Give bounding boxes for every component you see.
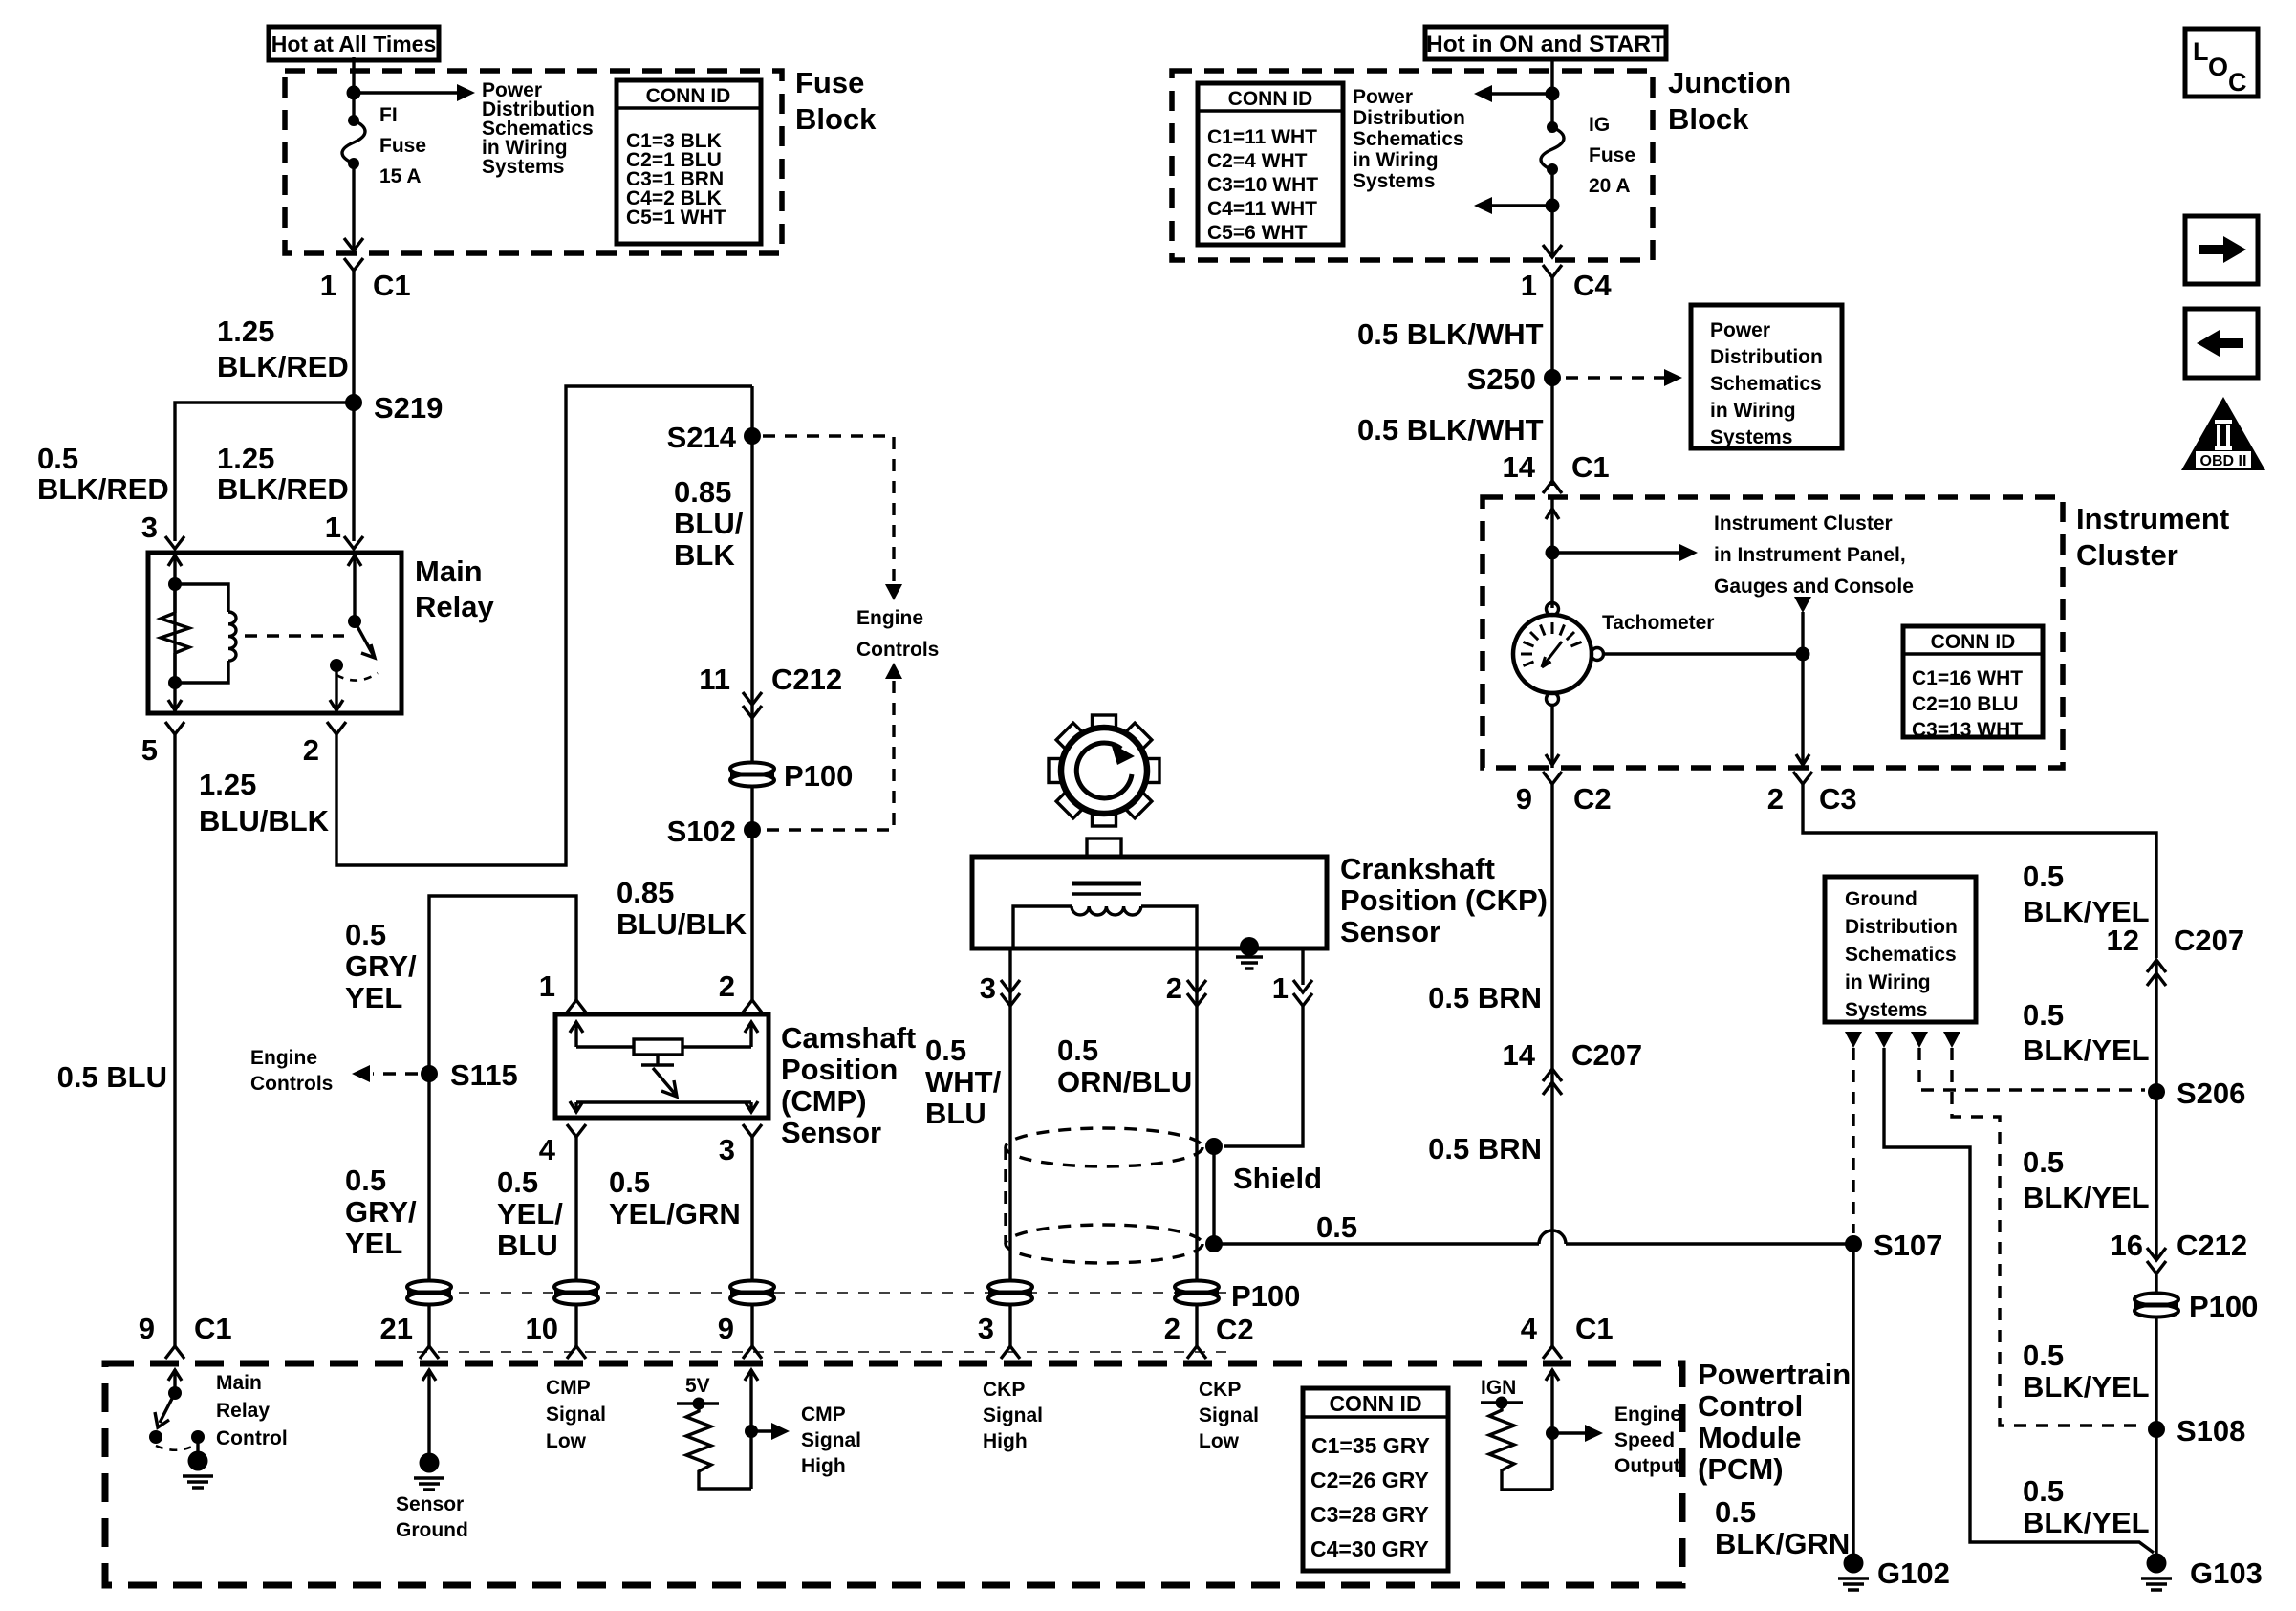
svg-text:C1: C1	[194, 1312, 232, 1345]
icon arrow right	[2185, 216, 2258, 284]
svg-text:C2: C2	[1573, 782, 1612, 816]
PCM connector face dashed line	[417, 1351, 1235, 1353]
svg-text:0.5 BLK/WHT: 0.5 BLK/WHT	[1357, 413, 1544, 446]
fuse block box	[285, 71, 782, 253]
arrow to power distribution (top)	[1474, 85, 1552, 102]
svg-text:Instrument Clusterin Instrumen: Instrument Clusterin Instrument Panel,Ga…	[1714, 512, 1914, 598]
svg-text:L: L	[2193, 37, 2209, 66]
svg-text:C1: C1	[373, 269, 411, 302]
wire CKP pin1 stub	[1301, 948, 1304, 985]
wire from hot feed	[352, 57, 355, 120]
icon arrow left	[2185, 309, 2258, 378]
ground G103	[2141, 1554, 2172, 1591]
svg-text:C: C	[2228, 68, 2247, 97]
dashed arrow S115 to engine controls	[352, 1065, 418, 1082]
wire into cluster	[1546, 497, 1559, 608]
icon LOC	[2185, 29, 2258, 97]
arrow to power distribution (bottom)	[1474, 197, 1552, 214]
svg-text:G102: G102	[1877, 1557, 1950, 1590]
connector 16 C212	[2147, 1248, 2166, 1274]
svg-text:0.5: 0.5	[1316, 1210, 1357, 1244]
connector 2 C3	[1793, 772, 1812, 784]
svg-text:C1=3 BLKC2=1 BLUC3=1 BRNC4=2 B: C1=3 BLKC2=1 BLUC3=1 BRNC4=2 BLKC5=1 WHT	[626, 130, 726, 229]
CKP sensor box	[972, 857, 1327, 948]
svg-text:1: 1	[320, 269, 336, 302]
svg-text:P100: P100	[2189, 1290, 2258, 1323]
fuse block conn id table	[617, 80, 761, 244]
CMP sensor box	[555, 1014, 769, 1118]
svg-text:3: 3	[141, 511, 158, 544]
svg-text:CONN ID: CONN ID	[1228, 88, 1313, 110]
svg-text:12: 12	[2107, 924, 2139, 957]
dashed arrow S250 to power dist box	[1566, 369, 1682, 386]
relay resistor	[161, 584, 189, 683]
wire tach to C3 branch	[1603, 652, 1803, 655]
pin 5	[165, 722, 184, 734]
CKP internal ground	[1236, 937, 1263, 969]
arrow from cluster note down	[1794, 597, 1811, 654]
svg-text:11: 11	[699, 663, 730, 696]
wire pin5 to PCM 9 C1	[173, 734, 176, 1346]
svg-text:3: 3	[719, 1133, 735, 1166]
grommet (2 wire)	[1175, 1281, 1219, 1305]
header Hot in ON and START	[1425, 27, 1666, 59]
dashed to S108	[1952, 1048, 2145, 1426]
connector 12 C207	[2147, 960, 2166, 986]
svg-text:5V: 5V	[685, 1375, 710, 1397]
node fuse out junction	[1546, 199, 1560, 213]
pin 3	[1001, 1346, 1020, 1359]
pin 2	[1187, 1346, 1206, 1359]
svg-text:CONN ID: CONN ID	[646, 85, 731, 107]
svg-text:1: 1	[325, 511, 341, 544]
grommet (3 wire)	[988, 1281, 1032, 1305]
svg-text:Tachometer: Tachometer	[1602, 612, 1714, 634]
svg-text:16: 16	[2111, 1229, 2143, 1262]
svg-text:C1: C1	[1571, 450, 1610, 484]
wire fuse to connector	[344, 163, 363, 250]
svg-text:C3: C3	[1819, 782, 1857, 816]
sensor ground lead	[414, 1369, 444, 1490]
wire pin2 loop to S214	[336, 386, 752, 865]
svg-text:0.5 BRN: 0.5 BRN	[1428, 1132, 1542, 1165]
wire CKP pin1 to shield	[1224, 1006, 1303, 1146]
svg-text:2: 2	[719, 969, 735, 1003]
svg-text:14: 14	[1503, 1038, 1536, 1072]
PCM box	[105, 1363, 1682, 1585]
pin 1 connector CKP	[1293, 980, 1312, 1006]
pin 4 connector CMP	[567, 1124, 586, 1137]
PCM conn id table	[1303, 1388, 1448, 1571]
wire C207 to S206	[2155, 960, 2157, 1260]
svg-text:S206: S206	[2177, 1077, 2245, 1110]
node S115	[421, 1065, 438, 1082]
pin 1 connector CMP	[567, 1000, 586, 1012]
svg-text:C1=11 WHTC2=4 WHTC3=10 WHTC4=1: C1=11 WHTC2=4 WHTC3=10 WHTC4=11 WHTC5=6 …	[1207, 126, 1318, 244]
wire C4 to S250	[1550, 277, 1553, 486]
wire fuse to connector	[1543, 169, 1562, 257]
svg-text:0.5 BLK/WHT: 0.5 BLK/WHT	[1357, 317, 1544, 351]
solid wire to G103	[1884, 1048, 2154, 1553]
svg-text:C1: C1	[1575, 1312, 1614, 1345]
connector 1 C1	[344, 258, 363, 271]
svg-text:P100: P100	[784, 759, 853, 793]
svg-text:4: 4	[539, 1133, 556, 1166]
wire C212 to P100	[2155, 1274, 2157, 1562]
svg-text:10: 10	[526, 1312, 558, 1345]
svg-text:CONN ID: CONN ID	[1329, 1391, 1421, 1416]
wire tach bottom down	[1546, 705, 1559, 768]
wire C3 branch down	[1796, 654, 1809, 768]
grommet (21 wire)	[407, 1281, 451, 1305]
wire shield to S107 with hop	[1214, 1230, 1853, 1244]
pin 3 connector CMP	[743, 1124, 762, 1137]
svg-text:2: 2	[1767, 782, 1784, 816]
svg-text:3: 3	[980, 971, 996, 1005]
svg-text:3: 3	[978, 1312, 994, 1345]
CKP sensor tip	[1087, 838, 1121, 857]
node cluster feed	[1546, 546, 1560, 560]
node: feed junction	[347, 86, 361, 100]
node S102	[744, 821, 761, 838]
wire S214 column	[750, 386, 753, 1000]
svg-text:2: 2	[1166, 971, 1182, 1005]
connector 11 C212	[743, 692, 762, 718]
svg-text:4: 4	[1521, 1312, 1538, 1345]
svg-text:9: 9	[1516, 782, 1532, 816]
shield cylinder	[1006, 1128, 1202, 1263]
pin 21	[420, 1346, 439, 1359]
svg-text:C212: C212	[771, 663, 842, 696]
instrument cluster box	[1483, 497, 2063, 768]
dashed bulkhead line	[417, 1292, 1233, 1294]
tachometer	[1513, 603, 1604, 706]
svg-text:14: 14	[1503, 450, 1536, 484]
svg-text:S108: S108	[2177, 1414, 2245, 1448]
ground distribution schematics box	[1825, 877, 1976, 1022]
svg-text:S214: S214	[667, 421, 737, 454]
pin 1	[344, 536, 363, 549]
pin 2 connector CMP	[743, 1000, 762, 1012]
main relay box	[148, 553, 401, 713]
node S206	[2148, 1083, 2165, 1100]
wire C1 to S219	[352, 271, 355, 403]
pin 10	[567, 1346, 586, 1359]
engine speed output lead	[1546, 1369, 1603, 1490]
wire CMP pin1 loop to S115	[429, 896, 576, 1074]
svg-text:Hot at All Times: Hot at All Times	[271, 32, 437, 56]
relay coil	[175, 584, 236, 683]
wire 9 C2 to PCM 4 C1	[1550, 784, 1553, 1346]
pin 9 C1	[165, 1346, 184, 1359]
shield tap node top	[1205, 1138, 1223, 1155]
svg-text:C2: C2	[1216, 1313, 1254, 1346]
svg-text:21: 21	[380, 1312, 413, 1345]
junction block conn id table	[1198, 83, 1343, 245]
svg-text:2: 2	[303, 733, 319, 767]
wire S219 to relay pin 3	[175, 403, 354, 541]
wire S107 to G102	[1852, 1244, 1854, 1562]
grommet (9 wire)	[730, 1281, 774, 1305]
wire S115 to grommet/PCM pin 21	[427, 1074, 430, 1346]
CKP internal coil and core	[1013, 883, 1197, 948]
wire CMP pin4 down	[574, 1137, 577, 1346]
node S219	[345, 394, 362, 411]
svg-text:S107: S107	[1874, 1229, 1942, 1262]
svg-text:G103: G103	[2190, 1557, 2263, 1590]
svg-text:1: 1	[539, 969, 555, 1003]
fuse FI 15A	[342, 115, 365, 169]
junction block box	[1172, 71, 1653, 260]
shield drain wire	[1212, 1146, 1215, 1244]
icon OBD II	[2181, 397, 2265, 470]
node S214	[744, 427, 761, 445]
wire arrow to power distribution	[354, 84, 475, 101]
svg-text:IGN: IGN	[1481, 1377, 1516, 1399]
connector P100 (C212 wire)	[730, 763, 774, 787]
ground dist triangles	[1845, 1032, 1862, 1048]
svg-text:Shield: Shield	[1233, 1162, 1322, 1195]
dashed branch S214 to engine controls	[763, 436, 894, 581]
svg-text:C1=16 WHTC2=10 BLUC3=13 WHT: C1=16 WHTC2=10 BLUC3=13 WHT	[1912, 667, 2023, 741]
power distribution schematics box	[1691, 305, 1842, 448]
pin 3	[165, 536, 184, 549]
svg-text:C212: C212	[2177, 1229, 2247, 1262]
5V pull-up resistor	[677, 1375, 751, 1489]
pin 3 connector CKP	[1001, 980, 1020, 1006]
dashed branch S102 to engine controls	[765, 663, 902, 830]
svg-text:9: 9	[139, 1312, 155, 1345]
svg-text:CONN ID: CONN ID	[1931, 631, 2016, 653]
grommet (10 wire)	[554, 1281, 598, 1305]
svg-text:1: 1	[1521, 269, 1537, 302]
dashed to S206	[1919, 1048, 2145, 1090]
svg-text:S102: S102	[667, 815, 736, 848]
shield tap node bottom	[1205, 1235, 1223, 1252]
wire 2 C3 to right stack	[1803, 784, 2156, 958]
pin 2	[327, 722, 346, 734]
svg-text:Hot in ON and START: Hot in ON and START	[1426, 32, 1665, 57]
svg-text:C207: C207	[1571, 1038, 1642, 1072]
pin 2 connector CKP	[1187, 980, 1206, 1006]
svg-text:EngineSpeedOutput: EngineSpeedOutput	[1614, 1404, 1681, 1477]
svg-text:P100: P100	[1231, 1279, 1300, 1313]
dashed to S107	[1852, 1048, 1854, 1233]
svg-text:C207: C207	[2174, 924, 2244, 957]
svg-text:S115: S115	[450, 1058, 518, 1092]
svg-text:OBD II: OBD II	[2200, 453, 2247, 469]
fuse IG 20A	[1541, 121, 1564, 175]
svg-text:9: 9	[718, 1312, 734, 1345]
node S108	[2148, 1421, 2165, 1438]
svg-text:2: 2	[1164, 1312, 1180, 1345]
wire CKP pin2 down	[1195, 948, 1198, 1346]
connector P100 (right)	[2134, 1294, 2178, 1317]
svg-text:O: O	[2208, 53, 2228, 81]
header Hot at All Times	[269, 27, 439, 60]
CMP signal high lead	[745, 1369, 790, 1489]
svg-text:S250: S250	[1467, 362, 1536, 396]
cluster conn id table	[1903, 626, 2043, 741]
connector 14 C1	[1543, 481, 1562, 493]
svg-text:1: 1	[1272, 971, 1289, 1005]
pin 4 C1	[1543, 1346, 1562, 1359]
connector 9 C2	[1543, 772, 1562, 784]
arrow to instrument cluster note	[1552, 544, 1698, 561]
node S107	[1845, 1235, 1862, 1252]
svg-text:C4: C4	[1573, 269, 1612, 302]
ground G102	[1838, 1554, 1869, 1591]
svg-text:5: 5	[141, 733, 158, 767]
relay switch	[330, 553, 378, 713]
node feed junction	[1546, 87, 1560, 101]
relay coil branch wire	[168, 553, 182, 713]
main relay control switch	[149, 1369, 213, 1488]
CMP internal: potentiometer	[570, 1022, 758, 1112]
wire CMP pin3 down	[750, 1137, 753, 1346]
connector 14 C207	[1543, 1069, 1562, 1095]
connector 1 C4	[1543, 265, 1562, 277]
wire hot feed	[1550, 57, 1553, 127]
wire CKP pin3 down	[1008, 948, 1011, 1346]
CKP reluctor wheel	[1049, 715, 1159, 826]
node S250	[1544, 369, 1561, 386]
pin 9 (C2)	[743, 1346, 762, 1359]
relay actuation dashed link	[245, 634, 344, 637]
svg-text:S219: S219	[374, 391, 443, 425]
IGN pull-up resistor	[1481, 1377, 1552, 1490]
node C3 branch	[1796, 647, 1810, 662]
wire S219 to relay pin 1	[352, 403, 355, 541]
svg-text:0.5 BRN: 0.5 BRN	[1428, 981, 1542, 1014]
svg-text:0.5 BLU: 0.5 BLU	[57, 1060, 167, 1094]
